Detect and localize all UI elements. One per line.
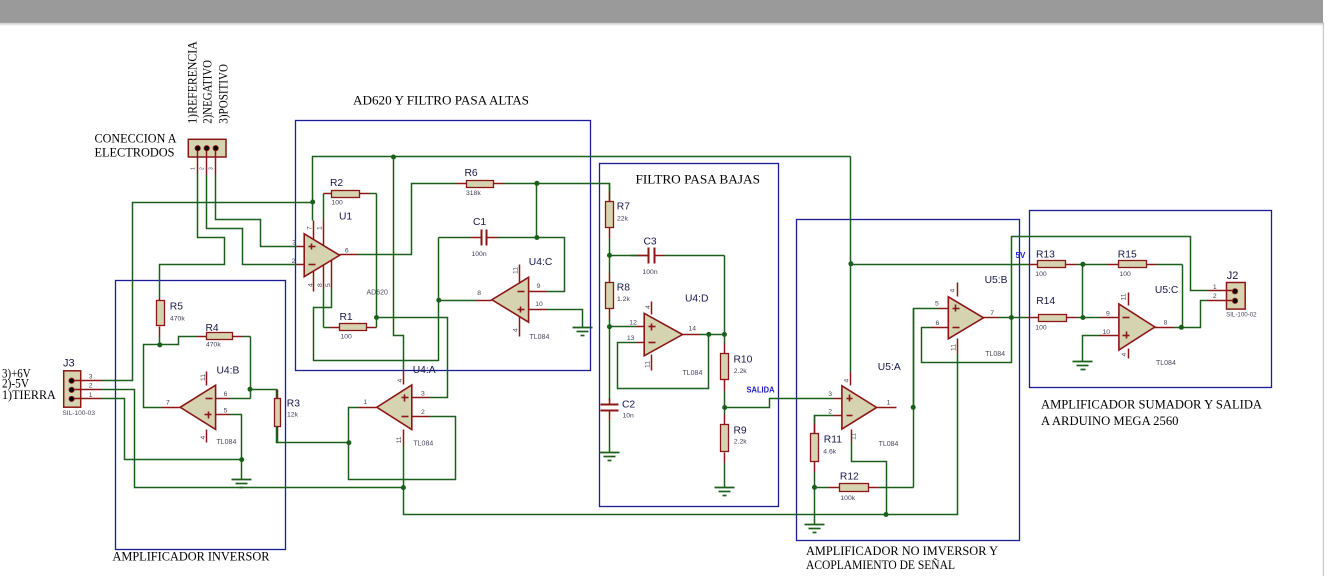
op-amp U4:D: [627, 294, 709, 378]
node C1 right: [534, 235, 539, 240]
subsystem box amplificador sumador: [1030, 211, 1272, 388]
svg-text:100n: 100n: [643, 269, 658, 276]
svg-text:J3: J3: [63, 357, 75, 369]
svg-text:11: 11: [851, 433, 858, 440]
svg-text:5: 5: [224, 407, 228, 414]
node U4:C out junction: [436, 298, 441, 303]
svg-text:100: 100: [1035, 271, 1047, 278]
svg-text:CONECCION A: CONECCION A: [95, 131, 178, 146]
wire R11 gnd: [814, 488, 816, 525]
svg-text:10n: 10n: [623, 413, 635, 420]
svg-text:R3: R3: [287, 399, 300, 410]
title AD620 Y FILTRO PASA ALTAS: [353, 93, 529, 108]
svg-text:U5:C: U5:C: [1155, 285, 1179, 296]
svg-text:U5:A: U5:A: [878, 362, 901, 373]
svg-text:AD620: AD620: [367, 289, 389, 296]
svg-text:R15: R15: [1118, 249, 1137, 260]
svg-text:1: 1: [317, 226, 324, 230]
wire electrode pin stub labels: [191, 167, 215, 170]
node R7 bottom: [607, 253, 612, 258]
svg-text:2: 2: [89, 383, 93, 390]
svg-text:4: 4: [1121, 353, 1128, 357]
wire +6V from J3 pin3 up: [102, 203, 313, 381]
wire J3 pin1 tierra: [102, 399, 242, 460]
wire R3 bottom: [277, 427, 349, 443]
svg-text:C2: C2: [622, 400, 635, 411]
svg-text:4.6k: 4.6k: [823, 448, 836, 455]
svg-text:3: 3: [421, 390, 425, 397]
svg-text:22k: 22k: [617, 215, 629, 222]
resistor R3: [275, 390, 301, 443]
node R5 bottom: [157, 342, 162, 347]
svg-text:R11: R11: [824, 435, 842, 446]
node U5:A out: [911, 405, 916, 410]
subsystem box filtro pasa bajas: [600, 164, 779, 507]
title AMPLIFICADOR NO IMVERSOR: [806, 543, 999, 572]
svg-text:AMPLIFICADOR NO IMVERSOR Y: AMPLIFICADOR NO IMVERSOR Y: [806, 543, 999, 558]
ground R9: [715, 488, 735, 496]
svg-text:3: 3: [828, 391, 832, 398]
svg-text:10: 10: [1103, 329, 1111, 336]
ground U4:C: [573, 328, 593, 336]
subsystem box amplificador inversor: [116, 281, 286, 550]
wire U4:D out to R10: [700, 334, 725, 336]
resistor R7: [606, 184, 631, 256]
svg-text:470k: 470k: [170, 315, 185, 322]
wire node to R3 top: [251, 390, 277, 399]
resistor R4: [197, 323, 251, 348]
svg-text:SIL-100-03: SIL-100-03: [62, 410, 95, 417]
svg-text:TL084: TL084: [217, 439, 237, 446]
svg-text:AMPLIFICADOR SUMADOR Y SALIDA: AMPLIFICADOR SUMADOR Y SALIDA: [1041, 397, 1263, 412]
title AMPLIFICADOR INVERSOR: [113, 549, 270, 564]
svg-text:9: 9: [1106, 311, 1110, 318]
wire -5V rail right: [404, 354, 958, 515]
svg-text:10: 10: [535, 301, 543, 308]
label 1)REFERENCIA: [186, 41, 200, 123]
svg-text:R13: R13: [1036, 249, 1055, 260]
wire U4:A pin11 down: [403, 445, 405, 488]
svg-text:4: 4: [844, 379, 851, 383]
wire U4:B pin5 to gnd: [230, 415, 242, 460]
wire U5:C pin10 gnd: [1083, 336, 1100, 362]
op-amp U4:A: [359, 365, 436, 448]
svg-text:2.2k: 2.2k: [734, 368, 747, 375]
svg-text:U4:A: U4:A: [413, 365, 436, 376]
wire to C3: [610, 255, 649, 257]
op-amp U4:B: [162, 366, 240, 447]
wire U1 out to R6: [358, 184, 455, 255]
svg-text:U5:B: U5:B: [985, 275, 1008, 286]
svg-text:6: 6: [936, 320, 940, 327]
node U5:C out: [1179, 325, 1184, 330]
svg-text:7: 7: [307, 226, 314, 230]
wire SALIDA: [725, 399, 834, 408]
svg-text:3: 3: [292, 240, 296, 247]
svg-text:2: 2: [828, 409, 832, 416]
capacitor C3: [631, 237, 725, 277]
ground U5:C: [1073, 362, 1093, 370]
label 2)NEGATIVO: [201, 60, 215, 124]
svg-text:4: 4: [397, 379, 404, 383]
svg-text:TL084: TL084: [530, 334, 550, 341]
resistor R13: [1029, 249, 1083, 278]
node -5V A: [401, 485, 406, 490]
wire U4:C pin10 to gnd: [547, 310, 583, 328]
resistor R14: [1012, 296, 1083, 332]
svg-text:2)NEGATIVO: 2)NEGATIVO: [201, 60, 215, 124]
node U4:B pin6 node: [248, 387, 253, 392]
svg-text:9: 9: [537, 283, 541, 290]
node +6V junction A: [310, 200, 315, 205]
resistor R10: [721, 335, 753, 408]
svg-text:11: 11: [1121, 293, 1128, 300]
label 3)+6V: [2, 365, 31, 380]
svg-text:1: 1: [1213, 284, 1217, 291]
wire U1 pin8 to R1: [323, 289, 325, 328]
node salida: [722, 405, 727, 410]
wire +6V vertical to U1 pin7: [313, 157, 851, 221]
wire gnd stub: [241, 460, 243, 480]
title FILTRO PASA BAJAS: [636, 172, 761, 187]
svg-text:C1: C1: [473, 217, 486, 228]
svg-text:8: 8: [477, 290, 481, 297]
svg-text:100n: 100n: [472, 251, 487, 258]
svg-text:SALIDA: SALIDA: [747, 386, 775, 395]
resistor R9: [721, 408, 748, 488]
wire U4:C out: [439, 300, 476, 302]
svg-text:5: 5: [325, 283, 332, 287]
svg-text:TL084: TL084: [1156, 360, 1176, 367]
svg-text:R6: R6: [465, 168, 478, 179]
svg-text:5V: 5V: [1016, 251, 1026, 260]
wire U1 pin5 to buffer out: [314, 238, 439, 361]
svg-text:TL084: TL084: [683, 370, 703, 377]
svg-text:14: 14: [689, 326, 697, 333]
svg-text:12: 12: [629, 319, 637, 326]
connector J3: [62, 357, 101, 417]
wire R6 to R7: [537, 184, 610, 202]
wire electrode pin3 to U1 plus: [216, 175, 297, 247]
svg-text:11: 11: [645, 361, 652, 368]
wire R8 to C2: [609, 327, 611, 401]
svg-text:8: 8: [317, 283, 324, 287]
svg-text:6: 6: [345, 247, 349, 254]
window title bar: [0, 0, 1323, 26]
svg-text:1: 1: [363, 399, 367, 406]
svg-text:1)TIERRA: 1)TIERRA: [2, 387, 56, 402]
resistor R11: [811, 416, 843, 488]
node R14 right: [1080, 315, 1085, 320]
node U5:B out: [1009, 315, 1014, 320]
op-amp U4:C: [476, 257, 553, 341]
svg-text:100: 100: [341, 334, 353, 341]
label 5V: [1016, 251, 1026, 260]
resistor R15: [1083, 249, 1183, 278]
op-amp U5:A: [828, 362, 901, 448]
wire U4:B pin6: [230, 398, 251, 400]
wire U5:B pin5: [914, 309, 939, 408]
wire C3 right down: [724, 256, 726, 335]
wire R2 left to U1 pin1: [323, 194, 325, 221]
svg-text:5: 5: [935, 300, 939, 307]
node U4:A out: [346, 440, 351, 445]
wire R6 right to junction: [504, 183, 537, 185]
svg-text:6: 6: [224, 391, 228, 398]
svg-text:11: 11: [396, 436, 403, 443]
svg-text:11: 11: [950, 344, 957, 351]
svg-text:TL084: TL084: [879, 441, 899, 448]
wire R15 right down: [1182, 265, 1184, 328]
svg-text:100: 100: [332, 200, 344, 207]
svg-text:2: 2: [292, 258, 296, 265]
label CONECCION A ELECTRODOS: [95, 131, 178, 160]
svg-text:ELECTRODOS: ELECTRODOS: [95, 145, 175, 160]
op-amp U1: [292, 212, 389, 297]
svg-text:12k: 12k: [287, 412, 299, 419]
svg-text:4: 4: [645, 305, 652, 309]
svg-text:7: 7: [166, 399, 170, 406]
wire U5:C out: [1174, 327, 1182, 329]
svg-text:R5: R5: [170, 302, 183, 313]
svg-text:318k: 318k: [466, 190, 481, 197]
svg-text:AD620 Y FILTRO PASA ALTAS: AD620 Y FILTRO PASA ALTAS: [353, 93, 529, 108]
svg-text:4: 4: [513, 328, 520, 332]
wire U5:C out to J2 pin2: [1182, 301, 1208, 328]
wire U5:A pin2 to R11: [815, 416, 834, 434]
svg-text:7: 7: [990, 310, 994, 317]
svg-text:U1: U1: [339, 212, 352, 223]
resistor R12: [815, 472, 914, 503]
ground C2: [600, 453, 620, 461]
svg-text:FILTRO PASA BAJAS: FILTRO PASA BAJAS: [636, 172, 761, 187]
wire to U4:C pin9: [537, 238, 565, 292]
wire R5 to R4: [160, 337, 197, 345]
svg-text:3: 3: [209, 167, 215, 170]
wire junction down to C1: [536, 184, 538, 238]
svg-text:3: 3: [89, 374, 93, 381]
label 1)TIERRA: [2, 387, 56, 402]
capacitor C1: [439, 217, 537, 258]
svg-text:AMPLIFICADOR INVERSOR: AMPLIFICADOR INVERSOR: [113, 549, 270, 564]
wire buffer ref to U4:A plus: [377, 318, 448, 398]
subsystem box AD620 y filtro pasa altas: [296, 121, 591, 371]
wire U4:B out to R5R4: [144, 345, 162, 408]
node -5V B: [884, 512, 889, 517]
resistor R2: [324, 178, 377, 207]
connector J1 electrodes: [188, 139, 226, 174]
resistor R5: [157, 298, 186, 345]
node tierra: [239, 457, 244, 462]
wire to U5:C pin9: [1083, 317, 1101, 319]
svg-text:R9: R9: [734, 426, 747, 437]
svg-text:ACOPLAMIENTO DE SEÑAL: ACOPLAMIENTO DE SEÑAL: [806, 557, 955, 572]
wire U5:B fb: [922, 318, 1012, 363]
svg-text:R8: R8: [617, 283, 630, 294]
svg-text:4: 4: [200, 436, 207, 440]
wire electrode pin1 to R5/U1 route: [160, 175, 225, 298]
svg-text:11: 11: [513, 267, 520, 274]
svg-text:R4: R4: [206, 323, 219, 334]
resistor R8: [606, 256, 631, 327]
resistor R6: [455, 168, 504, 197]
label 2)-5V: [2, 376, 30, 391]
op-amp U5:B: [932, 275, 1008, 358]
svg-text:1)REFERENCIA: 1)REFERENCIA: [186, 41, 200, 123]
connector J2: [1208, 270, 1258, 319]
svg-text:4: 4: [950, 289, 957, 293]
svg-text:2: 2: [1213, 293, 1217, 300]
svg-text:TL084: TL084: [413, 441, 433, 448]
svg-text:2: 2: [200, 167, 206, 170]
svg-text:R12: R12: [840, 472, 859, 483]
node R11 R12 gnd: [812, 485, 817, 490]
wire R8 to U4:D pin12: [610, 326, 637, 328]
ground R11: [805, 525, 825, 533]
svg-text:100k: 100k: [840, 495, 855, 502]
svg-text:2: 2: [421, 409, 425, 416]
resistor R1: [324, 312, 377, 341]
node +6V junction C: [848, 261, 853, 266]
node C3 R10 junction: [722, 332, 727, 337]
svg-text:R1: R1: [340, 312, 353, 323]
wire R2 right down to R1: [376, 194, 378, 328]
svg-text:U4:C: U4:C: [529, 257, 553, 268]
svg-text:R10: R10: [734, 355, 753, 366]
svg-text:J2: J2: [1227, 270, 1239, 282]
svg-text:R7: R7: [617, 202, 630, 213]
wire +6V to R13: [851, 264, 1029, 266]
svg-text:1.2k: 1.2k: [617, 296, 630, 303]
wire electrode pin2 to U1 minus: [207, 175, 297, 265]
svg-text:4: 4: [307, 283, 314, 287]
op-amp U5:C: [1100, 285, 1179, 367]
label SALIDA: [747, 386, 775, 395]
wire +6V down to U5:A pin4: [850, 157, 852, 372]
svg-text:C3: C3: [644, 237, 657, 248]
wire R13R14 join: [1082, 265, 1084, 318]
wire R12 up to out: [913, 309, 915, 488]
svg-text:100: 100: [1035, 325, 1047, 332]
node R2R1 junction: [374, 315, 379, 320]
wire U4:A out down: [349, 408, 456, 480]
svg-text:1: 1: [191, 167, 197, 170]
node R6 out: [534, 181, 539, 186]
title AMPLIFICADOR SUMADOR: [1041, 397, 1263, 428]
node R8 bottom: [607, 324, 612, 329]
wire U5:B out up to J2 pin1: [1012, 237, 1209, 318]
svg-text:R14: R14: [1036, 296, 1055, 307]
right window border: [1322, 22, 1324, 576]
svg-text:470k: 470k: [206, 341, 221, 348]
wire J3 pin2 -5V: [102, 390, 404, 488]
node R13 right: [1080, 262, 1085, 267]
wire R4 right down: [250, 337, 252, 399]
svg-text:SIL-100-02: SIL-100-02: [1226, 312, 1257, 319]
subsystem box amplificador no inversor: [797, 220, 1020, 541]
node +6V junction B: [391, 155, 396, 160]
svg-text:TL084: TL084: [985, 351, 1005, 358]
svg-text:11: 11: [200, 374, 207, 381]
svg-text:13: 13: [627, 335, 635, 342]
wire U5:A pin11: [852, 442, 887, 515]
svg-text:R2: R2: [330, 178, 343, 189]
svg-text:A ARDUINO MEGA 2560: A ARDUINO MEGA 2560: [1041, 413, 1179, 428]
capacitor C2: [601, 399, 636, 453]
svg-text:100: 100: [1120, 271, 1132, 278]
svg-text:3)POSITIVO: 3)POSITIVO: [217, 64, 231, 124]
svg-text:U4:D: U4:D: [685, 294, 708, 305]
svg-text:1: 1: [887, 400, 891, 407]
svg-text:1: 1: [89, 392, 93, 399]
label 3)POSITIVO: [217, 64, 231, 124]
svg-text:8: 8: [1164, 320, 1168, 327]
wire U4:D feedback: [618, 335, 709, 389]
ground U4:B: [232, 480, 252, 488]
wire +6V branch to U4:A pin4: [394, 157, 404, 372]
svg-text:2.2k: 2.2k: [734, 439, 747, 446]
svg-text:U4:B: U4:B: [217, 366, 240, 377]
wire U5:B out to R14: [999, 317, 1012, 319]
node U4:D out fb: [706, 332, 711, 337]
